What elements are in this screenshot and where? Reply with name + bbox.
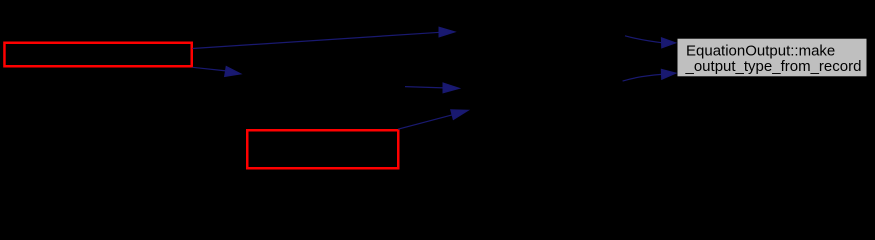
edge: hidden node A -> hidden node B (middle horizontal arrow) (405, 83, 460, 93)
edge: box1 -> hidden node B (long top arrow) (193, 27, 456, 48)
svg-text:EquationOutput::make: EquationOutput::make (686, 43, 835, 60)
edge: hidden node B -> node U (upper right arrow) (625, 36, 676, 48)
svg-text:_output_type_from_record: _output_type_from_record (685, 58, 862, 75)
edge: box1 -> hidden node A (short arrow) (193, 66, 242, 76)
edge: box2 -> hidden node B (rising arrow) (398, 110, 468, 129)
node: red box 1 (truncated caller, label hidden) (4, 43, 191, 67)
node U: EquationOutput::make_output_type_from_record (current, grey) (677, 38, 867, 77)
node: red box 2 (truncated caller, label hidden) (247, 130, 398, 168)
edge: hidden node B -> node U (lower right arrow) (623, 69, 676, 81)
